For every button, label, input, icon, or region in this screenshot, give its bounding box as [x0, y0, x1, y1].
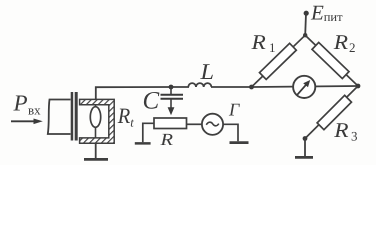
svg-text:R: R — [333, 118, 349, 142]
waveguide tube — [48, 100, 71, 135]
wiper arrow from C to R — [170, 99, 172, 110]
wire E to bridge top node — [304, 13, 307, 35]
thermistor lead bottom — [95, 127, 97, 138]
ground under box — [84, 158, 108, 161]
svg-text:R: R — [159, 130, 173, 149]
thermistor R_t bead (oval) — [90, 107, 100, 128]
supply terminal E dot — [304, 11, 309, 16]
resistor R body — [154, 118, 187, 129]
ground lead bridge bottom — [304, 139, 306, 157]
ground bridge bottom — [295, 156, 313, 159]
svg-text:R: R — [250, 30, 266, 54]
svg-text:E: E — [310, 1, 324, 25]
wire riser from box to top rail — [96, 87, 171, 99]
thermistor mount box (hatched walls, open left) — [80, 99, 115, 143]
svg-text:пит: пит — [324, 10, 343, 24]
generator G circle — [202, 114, 223, 135]
node junction at capacitor — [169, 85, 174, 90]
wire bridge right arm (R2 branch) — [305, 35, 358, 86]
wire right of generator — [223, 124, 238, 141]
wire coil to bridge left node — [211, 86, 252, 88]
galvanometer needle arrow — [297, 85, 306, 95]
svg-text:3: 3 — [351, 129, 358, 144]
wire bridge left arm (R1 branch) — [252, 35, 306, 87]
svg-text:R: R — [333, 30, 349, 54]
bridge bottom node — [303, 136, 308, 141]
svg-text:2: 2 — [349, 40, 356, 55]
svg-text:Г: Г — [228, 100, 240, 120]
arrow P_vx input — [11, 120, 37, 122]
bridge right node — [356, 84, 361, 89]
wire top rail to coil — [171, 86, 189, 88]
wire left of R to ground — [143, 123, 154, 142]
bridge top node — [303, 33, 307, 37]
generator tilde — [206, 122, 219, 126]
wire bridge middle (galvanometer rail) — [252, 86, 359, 87]
ground right of generator — [230, 141, 249, 144]
capacitor C lead — [170, 87, 172, 94]
resistor R1 body — [259, 43, 296, 79]
svg-text:вх: вх — [28, 103, 41, 118]
svg-text:C: C — [143, 88, 160, 115]
bridge left node — [249, 85, 254, 90]
ground left of R — [135, 142, 151, 145]
inductor L coil — [188, 83, 211, 87]
galvanometer circle — [293, 76, 315, 98]
resistor R3 body — [317, 95, 351, 129]
capacitor C plates — [161, 94, 184, 96]
svg-text:L: L — [199, 59, 214, 84]
svg-text:1: 1 — [269, 40, 276, 55]
svg-text:P: P — [13, 91, 28, 116]
ground lead under box — [95, 143, 97, 158]
waveguide flange (double bars) — [71, 92, 74, 141]
wire R to generator — [187, 123, 203, 125]
thermistor lead top — [95, 105, 97, 107]
svg-text:R: R — [117, 103, 131, 128]
wire bridge lower-right arm (R3 branch) — [305, 86, 358, 139]
svg-text:t: t — [130, 115, 134, 129]
resistor R2 body — [312, 42, 349, 78]
